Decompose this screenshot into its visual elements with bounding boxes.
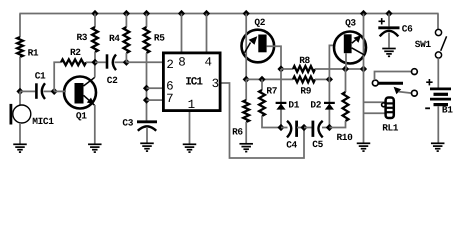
svg-text:C3: C3 xyxy=(122,118,133,129)
svg-text:C2: C2 xyxy=(107,75,118,86)
svg-text:B1: B1 xyxy=(442,104,453,115)
svg-text:R2: R2 xyxy=(70,47,81,58)
svg-text:R9: R9 xyxy=(300,86,311,97)
wire to IC1 pin 2 xyxy=(126,61,162,63)
resistor R7 xyxy=(259,79,281,127)
ground below R6 xyxy=(239,144,253,152)
svg-text:R5: R5 xyxy=(154,33,165,44)
wire top supply rail xyxy=(19,13,438,15)
relay coil RL1 xyxy=(364,98,399,134)
ground below B1 xyxy=(431,143,445,151)
capacitor C3 xyxy=(122,118,157,143)
svg-text:MIC1: MIC1 xyxy=(32,116,54,127)
resistor R4 xyxy=(109,14,129,63)
capacitor C6 xyxy=(378,14,413,48)
diode D2 xyxy=(310,45,335,127)
wire IC1 pin 1 to ground xyxy=(189,112,191,144)
pin 6 label xyxy=(166,80,174,94)
pin 8 label xyxy=(178,56,186,70)
svg-text:2: 2 xyxy=(166,58,174,72)
pin 3 label xyxy=(212,77,220,91)
relay contact common terminal xyxy=(372,72,411,86)
node C4-C5 junction xyxy=(300,124,307,131)
wire Q1 emitter to ground xyxy=(94,105,96,144)
node Q2 collector junction xyxy=(277,65,284,72)
resistor R3 xyxy=(77,14,98,63)
relay contact NC terminal xyxy=(412,69,418,75)
relay contact NO terminal xyxy=(412,90,418,96)
svg-text:R7: R7 xyxy=(266,86,277,97)
svg-text:C6: C6 xyxy=(402,24,413,35)
ground below IC1 pin 1 xyxy=(183,144,197,152)
svg-text:R4: R4 xyxy=(109,33,120,44)
node R5-pin6 junction xyxy=(143,85,150,92)
ground below Q1 xyxy=(88,144,102,152)
svg-text:3: 3 xyxy=(212,77,220,91)
resistor R6 xyxy=(232,79,249,143)
wire IC1 pin 3 output xyxy=(222,83,305,158)
ground below MIC1 xyxy=(13,144,27,152)
node R1-MIC1-C1 junction xyxy=(16,88,23,95)
relay contact armature xyxy=(378,83,411,94)
capacitor C4 xyxy=(281,121,304,151)
resistor R8 xyxy=(281,55,364,72)
svg-text:R8: R8 xyxy=(299,55,310,66)
svg-text:Q2: Q2 xyxy=(254,17,265,28)
wire Q2 emitter to R9 xyxy=(246,78,293,80)
svg-text:RL1: RL1 xyxy=(382,123,399,134)
pin 7 label xyxy=(166,92,174,106)
svg-text:IC1: IC1 xyxy=(185,76,203,88)
svg-text:4: 4 xyxy=(205,56,213,70)
svg-text:D2: D2 xyxy=(310,99,321,110)
svg-text:R3: R3 xyxy=(77,32,88,43)
capacitor C2 xyxy=(95,54,126,86)
svg-text:R6: R6 xyxy=(232,126,243,137)
resistor R9 xyxy=(293,77,329,97)
svg-text:Q1: Q1 xyxy=(76,110,87,121)
resistor R10 xyxy=(329,69,353,143)
switch SW1 xyxy=(415,14,447,88)
wire IC1 pin 4 xyxy=(206,14,208,52)
node rail-pin4 xyxy=(203,10,210,17)
capacitor C5 xyxy=(304,121,329,151)
node C1-R2-Q1 base junction xyxy=(51,88,58,95)
pin 1 label xyxy=(188,98,196,112)
node R5-pin7 junction xyxy=(143,97,150,104)
transistor Q2 xyxy=(241,14,281,80)
svg-text:C1: C1 xyxy=(35,70,46,81)
node C5-D2-R10 junction xyxy=(326,124,333,131)
ground below Q3 xyxy=(357,143,371,151)
transistor Q3 xyxy=(334,14,366,70)
wire to IC1 pin 6 xyxy=(147,87,163,89)
resistor R2 xyxy=(54,47,95,91)
wire Q3 right lead to ground xyxy=(363,69,365,143)
wire IC1 pin 8 xyxy=(181,14,183,52)
battery B1 xyxy=(425,79,453,143)
svg-text:7: 7 xyxy=(166,92,174,106)
transistor Q1 xyxy=(54,77,96,122)
microphone MIC1 xyxy=(11,91,54,143)
wire to IC1 pin 7 xyxy=(147,99,163,101)
wire Q1 collector xyxy=(94,62,96,77)
node C2-R4 junction xyxy=(123,59,130,66)
svg-text:R10: R10 xyxy=(337,132,354,143)
svg-text:C4: C4 xyxy=(286,140,297,151)
diode D1 xyxy=(276,69,300,128)
svg-text:Q3: Q3 xyxy=(345,18,356,29)
svg-text:1: 1 xyxy=(188,98,196,112)
svg-text:C5: C5 xyxy=(312,139,323,150)
node Q2 emitter junction xyxy=(243,76,250,83)
pin 2 label xyxy=(166,58,174,72)
ground below C3 xyxy=(140,143,154,151)
capacitor C1 xyxy=(20,70,52,99)
node R8-Q3 emitter junction xyxy=(360,65,367,72)
node rail-C6 xyxy=(385,10,392,17)
resistor R1 xyxy=(17,14,39,92)
svg-text:SW1: SW1 xyxy=(415,39,432,50)
resistor R5 xyxy=(144,14,166,121)
node rail-R3 xyxy=(91,10,98,17)
pin 4 label xyxy=(205,56,213,70)
node rail-Q3 xyxy=(360,10,367,17)
node D1-C4 junction xyxy=(277,124,284,131)
svg-text:D1: D1 xyxy=(288,100,299,111)
node R7 top junction xyxy=(258,76,265,83)
ground below C6 xyxy=(382,49,396,57)
op-amp IC1 box xyxy=(163,53,220,111)
node rail-R5 xyxy=(143,10,150,17)
node R8-Q3 base bar junction xyxy=(342,65,349,72)
node rail-R4 xyxy=(123,10,130,17)
node R3-R2-C2 junction xyxy=(91,59,98,66)
node rail-pin8 xyxy=(178,10,185,17)
svg-text:R1: R1 xyxy=(28,47,39,58)
svg-text:8: 8 xyxy=(178,56,186,70)
node rail-Q2 xyxy=(243,10,250,17)
node R9-D2 junction xyxy=(326,76,333,83)
